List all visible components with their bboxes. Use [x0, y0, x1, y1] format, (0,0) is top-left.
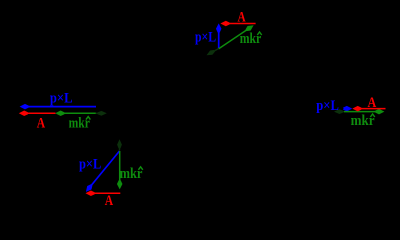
- vector p×L (top point), blue: [216, 23, 222, 48]
- label mk r-hat (aphelion), green: [351, 112, 375, 128]
- svg-text:A: A: [105, 192, 114, 209]
- svg-text:A: A: [238, 8, 247, 25]
- svg-text:A: A: [37, 114, 46, 131]
- vector mk r-hat (aphelion), green: [344, 109, 384, 115]
- vector A (perihelion), red: [19, 111, 56, 117]
- label mk r-hat (perihelion), green: [69, 114, 91, 131]
- label mk r-hat (top), green: [240, 30, 262, 46]
- svg-text:p×L: p×L: [79, 156, 101, 172]
- svg-text:mkr: mkr: [351, 112, 375, 128]
- vector p×L (bottom point), blue: [86, 151, 120, 192]
- svg-text:A: A: [368, 94, 377, 110]
- vector p×L (aphelion), blue: [343, 106, 352, 112]
- radial dark-green arrow toward focus (top point): [207, 49, 219, 56]
- vector p×L (perihelion), blue: [20, 104, 96, 110]
- vector mk r-hat (top point), green: [219, 25, 254, 49]
- svg-text:p×L: p×L: [50, 90, 73, 106]
- label mk r-hat (bottom), green: [120, 165, 143, 181]
- svg-text:mkr: mkr: [120, 165, 143, 181]
- svg-text:p×L: p×L: [195, 28, 216, 44]
- svg-text:mkr: mkr: [69, 114, 90, 131]
- vector mk r-hat (bottom point), green: [117, 151, 123, 189]
- radial dark-green arrow toward focus (aphelion): [334, 109, 344, 114]
- radial dark-green arrow toward focus (bottom point): [117, 139, 122, 150]
- vector A (top point), red: [220, 21, 255, 27]
- svg-text:mkr: mkr: [240, 30, 262, 46]
- vector A (aphelion), red: [352, 106, 385, 112]
- radial dark-green arrow toward focus (perihelion): [96, 111, 107, 116]
- vector mk r-hat (perihelion), green: [55, 111, 96, 117]
- vector A (bottom point), red: [86, 191, 121, 197]
